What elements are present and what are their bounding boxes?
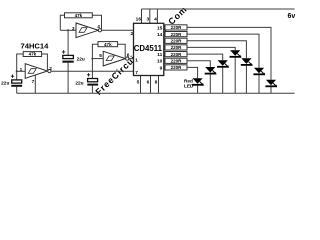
gate triangle U1C (25, 64, 47, 79)
svg-text:10: 10 (157, 59, 163, 65)
svg-text:16: 16 (136, 17, 142, 23)
svg-text:1: 1 (135, 58, 138, 64)
svg-text:220R: 220R (171, 32, 183, 37)
wire output osc1 to pin2 (102, 29, 134, 31)
wire feedback left osc1 (60, 15, 64, 30)
bubble U1B output (126, 57, 129, 60)
resistor R5 220R (164, 32, 187, 37)
svg-text:220R: 220R (171, 25, 183, 30)
svg-text:4: 4 (97, 24, 100, 30)
junction node osc1 input (67, 29, 69, 31)
wire 6V top rail (142, 8, 295, 10)
capacitor C1 22u (62, 30, 85, 93)
svg-text:6: 6 (147, 80, 150, 86)
svg-text:220R: 220R (171, 52, 183, 57)
svg-text:6v: 6v (288, 13, 296, 20)
svg-text:47k: 47k (75, 13, 83, 18)
svg-text:CD4511: CD4511 (134, 44, 163, 53)
LED D7 (265, 80, 277, 94)
bubble U1C output (48, 70, 51, 73)
wire pin 15 to LED (187, 27, 271, 79)
svg-text:2: 2 (131, 31, 134, 37)
inverter U1C 74HC14 gate 1-2 (16, 52, 134, 94)
junction node osc2 input (91, 58, 93, 60)
wire output osc3 to pin7 (51, 70, 134, 72)
svg-text:7: 7 (135, 70, 138, 76)
wire feedback right osc2 (118, 44, 126, 57)
wire feedback left osc3 (17, 54, 24, 71)
LED D2 (205, 67, 217, 93)
ground rail (17, 92, 295, 94)
resistor R10 220R (164, 65, 187, 70)
wire pin16 to rail (141, 9, 143, 23)
wire feedback right osc1 (92, 15, 101, 29)
svg-text:220R: 220R (171, 39, 183, 44)
wire pin 14 to LED (187, 34, 259, 68)
wire pin 13 to LED (187, 41, 246, 59)
wire pin 11 to LED (187, 54, 223, 60)
svg-text:15: 15 (157, 25, 163, 31)
wire 74HC14 pin7 ground (34, 75, 36, 93)
svg-text:5: 5 (137, 80, 140, 86)
hysteresis symbol U1A (79, 28, 87, 33)
svg-text:5: 5 (99, 53, 102, 59)
wire feedback left osc2 (92, 44, 98, 58)
wire pin 9 to LED (187, 67, 198, 78)
svg-text:220R: 220R (171, 65, 183, 70)
svg-text:220R: 220R (171, 45, 183, 50)
inverter U1A 74HC14 gate 3-4 (60, 13, 133, 38)
capacitor C2 22u (75, 59, 98, 94)
svg-text:14: 14 (157, 32, 163, 38)
resistor R1 47k (65, 13, 93, 18)
wire CD4511 bottom pin8 (158, 76, 160, 94)
wire output osc2 to pin1 (129, 58, 134, 60)
svg-text:74HC14: 74HC14 (21, 41, 50, 50)
svg-text:220R: 220R (171, 59, 183, 64)
wire input osc1 (60, 29, 76, 31)
svg-text:3: 3 (147, 17, 150, 23)
svg-text:22u: 22u (75, 80, 83, 86)
wire input osc3 (17, 70, 26, 72)
resistor R2 47k (98, 42, 118, 47)
svg-text:4: 4 (154, 17, 157, 23)
svg-text:47k: 47k (104, 42, 112, 47)
LED D3 (217, 60, 229, 93)
resistor R8 220R (164, 52, 187, 57)
wire feedback right osc3 (42, 54, 48, 70)
svg-text:3: 3 (72, 26, 75, 32)
LED D6 (253, 68, 265, 94)
svg-text:2: 2 (49, 66, 52, 72)
resistor R4 220R (164, 25, 187, 30)
svg-text:22u: 22u (77, 57, 85, 63)
wire pin 10 to LED (187, 61, 210, 67)
wire input osc2 (92, 58, 103, 60)
svg-text:1: 1 (20, 67, 23, 73)
LED D5 (241, 58, 253, 93)
svg-text:6: 6 (127, 53, 130, 59)
resistor R6 220R (164, 38, 187, 43)
gate triangle U1B (103, 51, 125, 66)
wire CD4511 bottom pin5 (140, 76, 142, 94)
svg-text:7: 7 (32, 79, 35, 85)
junction node osc3 input (16, 70, 18, 72)
svg-text:22u: 22u (1, 81, 9, 87)
resistor R3 47k (23, 52, 41, 57)
inverter U1B 74HC14 gate 5-6 (91, 42, 133, 66)
svg-text:8: 8 (155, 80, 158, 86)
capacitor C3 22u (1, 71, 22, 93)
svg-text:11: 11 (157, 52, 162, 58)
wire pin4 to rail (156, 9, 158, 23)
wire pin3 to rail (149, 9, 151, 23)
bubble U1A output (98, 29, 101, 32)
hysteresis symbol U1B (106, 56, 114, 61)
resistor R7 220R (164, 45, 187, 50)
hysteresis symbol U1C (28, 69, 36, 74)
svg-text:9: 9 (160, 65, 163, 71)
svg-text:47k: 47k (29, 52, 37, 57)
gate triangle U1A (76, 23, 98, 38)
LED D1 (192, 78, 204, 93)
wire CD4511 bottom pin6 (150, 76, 152, 94)
IC U2 CD4511 (131, 17, 164, 86)
LED D4 (230, 50, 242, 93)
wire pin 12 to LED (187, 47, 235, 50)
resistor R9 220R (164, 58, 187, 63)
